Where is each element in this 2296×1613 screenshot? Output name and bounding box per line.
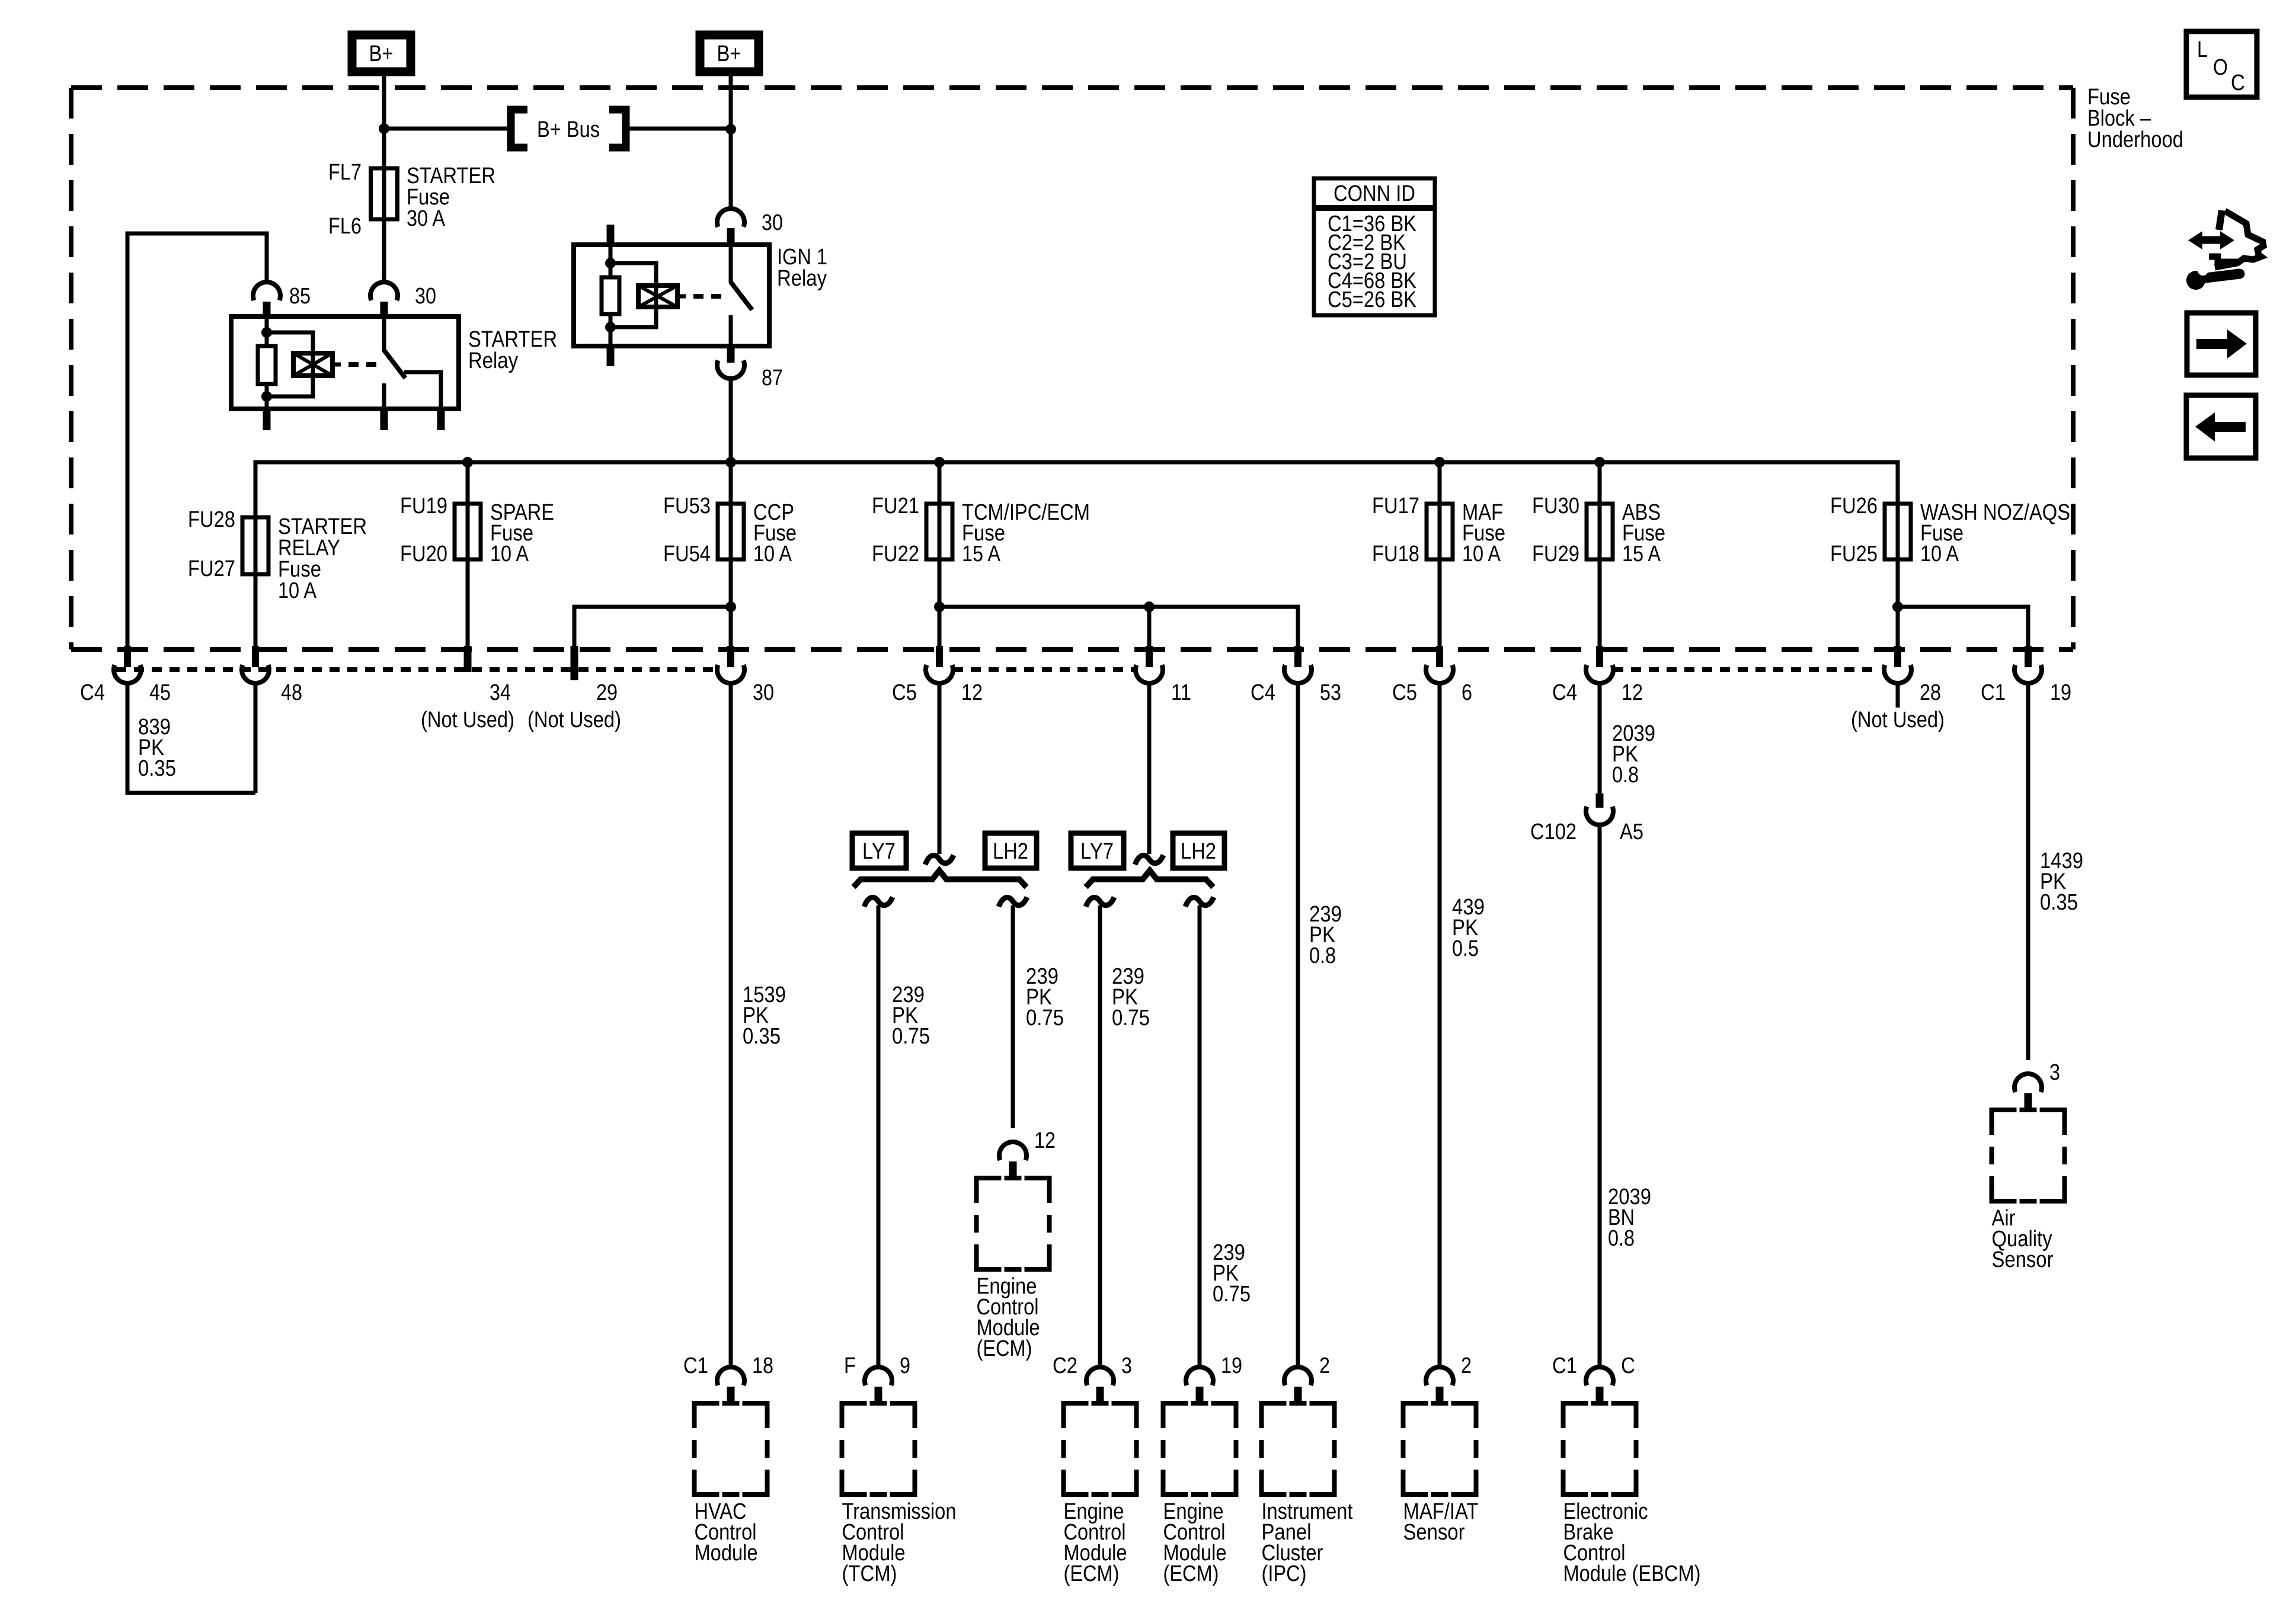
wire junction down to FL7 fuse: [382, 129, 386, 168]
break tilde wire D: [1185, 897, 1214, 907]
wire B+2 down to IGN1 pin30: [729, 129, 733, 209]
svg-text:LY7: LY7: [862, 839, 896, 864]
svg-text:LY7: LY7: [1080, 839, 1114, 864]
module Air Quality Sensor dashed box: [1992, 1110, 2017, 1135]
svg-text:C4: C4: [80, 680, 105, 705]
wire through FL fuse: [382, 168, 386, 219]
B+ terminal 2: [700, 35, 759, 72]
svg-text:Module (EBCM): Module (EBCM): [1563, 1561, 1701, 1586]
svg-text:10 A: 10 A: [1462, 542, 1501, 567]
wire through FU19 fuse: [466, 462, 470, 559]
svg-text:F: F: [844, 1353, 856, 1378]
node B+ bus right junction: [725, 124, 736, 135]
svg-text:0.8: 0.8: [1608, 1226, 1635, 1251]
module Engine Control Module mid dashed box: [977, 1178, 1002, 1203]
svg-text:48: 48: [281, 680, 302, 705]
svg-text:FU17: FU17: [1372, 494, 1419, 519]
node ign1 coil top: [605, 258, 616, 268]
wire FU18 down to pin C5-6: [1438, 559, 1442, 647]
ign1 relay pin 30 connector: [717, 209, 744, 227]
svg-text:(Not Used): (Not Used): [1851, 708, 1945, 732]
starter relay coil loop: [267, 332, 313, 396]
variant box LH2 (group1): [985, 833, 1037, 868]
svg-text:Relay: Relay: [468, 348, 518, 373]
svg-text:C1: C1: [1552, 1353, 1577, 1378]
break tilde pin12 wire: [925, 855, 954, 865]
svg-text:15 A: 15 A: [1622, 542, 1661, 567]
svg-text:0.8: 0.8: [1309, 943, 1336, 968]
starter relay switch fixed contact: [382, 316, 386, 351]
svg-text:0.75: 0.75: [1213, 1282, 1251, 1307]
wire through FU17 fuse: [1438, 462, 1442, 559]
wire B+2 down to junction: [729, 72, 733, 129]
svg-text:10 A: 10 A: [1920, 542, 1959, 567]
starter relay coil bottom wire: [265, 384, 269, 409]
fuse FU26/FU25 WASH NOZ/AQS Fuse 10A: [1885, 504, 1911, 559]
fuse FL7/FL6 STARTER Fuse 30A: [371, 168, 398, 219]
wire D down to ECM2: [1198, 905, 1202, 1367]
brace group1: [853, 870, 1027, 887]
svg-text:CONN ID: CONN ID: [1334, 181, 1415, 206]
wire ign1 87 to bus: [729, 379, 733, 462]
wire through FU28 fuse: [254, 517, 258, 574]
svg-text:0.5: 0.5: [1452, 936, 1479, 961]
wire B+ bus right segment: [628, 127, 731, 131]
connector dotted row line right: [1613, 667, 1880, 672]
svg-text:18: 18: [752, 1353, 773, 1378]
pin 30 connector (bottom row): [727, 646, 734, 667]
fuse FU30/FU29 ABS Fuse 15A: [1587, 504, 1613, 559]
connector C5 dotted row line: [953, 667, 1136, 672]
svg-text:53: 53: [1320, 680, 1341, 705]
ign1 relay coil loop: [610, 263, 656, 327]
pin C5-6 connector: [1436, 646, 1443, 667]
HVAC Control Module pin connector: [717, 1367, 744, 1385]
ign1 relay pin 87 connector: [717, 360, 744, 379]
starter relay coil resistor: [258, 346, 276, 384]
ign1 relay switch blade: [731, 282, 752, 310]
svg-text:C102: C102: [1530, 820, 1576, 844]
wire pin11 drop: [1147, 607, 1152, 647]
wire through FU53 fuse: [729, 462, 733, 559]
svg-text:L: L: [2197, 37, 2208, 62]
variant box LY7 (group2): [1071, 833, 1124, 868]
starter relay bottom stub common: [380, 409, 388, 430]
svg-text:LH2: LH2: [1181, 839, 1216, 864]
starter relay solenoid lead: [332, 363, 341, 367]
fuse block underhood dashed border (right edge): [2071, 88, 2076, 649]
ign1 relay solenoid lead: [677, 295, 686, 299]
svg-text:3: 3: [1121, 1353, 1132, 1378]
connector C102 A5 inline: [1596, 793, 1604, 808]
svg-text:FU53: FU53: [663, 494, 711, 519]
starter relay switch lower contact: [382, 383, 386, 409]
svg-text:C: C: [1621, 1353, 1635, 1378]
svg-text:FU30: FU30: [1532, 494, 1579, 519]
svg-text:FU27: FU27: [188, 556, 235, 581]
svg-text:29: 29: [596, 680, 618, 705]
svg-text:Sensor: Sensor: [1992, 1247, 2054, 1272]
svg-text:C: C: [2231, 71, 2245, 95]
wire pin48 below: [254, 683, 258, 793]
node bus at ABS fuse: [1594, 457, 1605, 468]
svg-text:30 A: 30 A: [407, 206, 446, 231]
svg-text:Module: Module: [695, 1541, 758, 1566]
wire pin53 down to IPC: [1296, 683, 1300, 1367]
svg-text:Sensor: Sensor: [1403, 1520, 1465, 1545]
svg-text:Underhood: Underhood: [2087, 127, 2183, 152]
wire through FU26 fuse: [1896, 504, 1900, 559]
svg-text:12: 12: [961, 680, 983, 705]
wire FU29 down to pin C4-12: [1598, 559, 1602, 647]
svg-text:FU21: FU21: [872, 494, 919, 519]
starter relay solenoid: [293, 353, 332, 376]
wire through FU21 fuse: [938, 462, 942, 559]
svg-text:O: O: [2213, 55, 2228, 80]
svg-text:Relay: Relay: [777, 266, 827, 291]
svg-text:45: 45: [149, 680, 171, 705]
wire FU20 down to pin 34: [466, 559, 470, 647]
svg-text:6: 6: [1462, 680, 1472, 705]
Engine Control Module 19 pin connector: [1186, 1367, 1213, 1385]
svg-text:C4: C4: [1552, 680, 1577, 705]
ign1 relay actuation dashed link: [693, 294, 724, 299]
module HVAC Control Module dashed box: [695, 1403, 720, 1428]
ign1 relay switch lower contact: [729, 315, 733, 346]
wire pin85 feed L-shape: [127, 233, 267, 647]
svg-text:FU20: FU20: [400, 542, 447, 567]
wire branch to pin C1-19: [1898, 607, 2028, 647]
svg-text:0.35: 0.35: [2040, 890, 2078, 915]
starter relay bottom stub coil: [263, 409, 271, 430]
LOC locator box: [2186, 31, 2257, 97]
variant box LH2 (group2): [1173, 833, 1224, 868]
svg-text:(Not Used): (Not Used): [527, 708, 621, 732]
wire C102 down to EBCM: [1598, 825, 1602, 1367]
starter relay bottom stub output: [437, 409, 445, 430]
svg-text:(ECM): (ECM): [977, 1336, 1032, 1361]
starter relay pin 30 connector: [370, 282, 398, 300]
wire C down to ECM1: [1098, 905, 1102, 1367]
svg-text:B+: B+: [369, 41, 394, 66]
svg-text:2: 2: [1319, 1353, 1330, 1378]
svg-text:FU26: FU26: [1830, 494, 1878, 519]
svg-text:30: 30: [762, 210, 783, 235]
svg-text:19: 19: [1221, 1353, 1242, 1378]
svg-text:C2: C2: [1053, 1353, 1077, 1378]
module MAF IAT Sensor dashed box: [1403, 1403, 1428, 1428]
wire main fuse bus: [255, 462, 1898, 517]
svg-text:12: 12: [1622, 680, 1643, 705]
ign1 relay switch fixed contact: [729, 245, 733, 283]
pin 11 connector: [1146, 646, 1153, 667]
starter relay pin 85 connector: [253, 282, 280, 300]
node TCM branch junction: [934, 601, 945, 612]
svg-text:0.75: 0.75: [1026, 1006, 1064, 1030]
wire FU54 down to pin 30: [729, 559, 733, 647]
svg-text:0.35: 0.35: [743, 1024, 781, 1049]
wire B down to ECM mid: [1011, 905, 1015, 1128]
svg-text:A5: A5: [1620, 820, 1643, 844]
break tilde wire B: [999, 897, 1027, 907]
svg-text:LH2: LH2: [993, 839, 1028, 864]
pin C1-19 connector: [2025, 646, 2032, 667]
node bus at SPARE fuse: [462, 457, 473, 468]
wire B+ bus left segment: [384, 127, 509, 131]
svg-text:(ECM): (ECM): [1064, 1561, 1120, 1586]
break tilde wire C: [1086, 897, 1114, 907]
ign1 relay pin86 top stub: [607, 225, 615, 245]
Engine Control Module mid pin connector: [999, 1142, 1027, 1160]
svg-text:(Not Used): (Not Used): [421, 708, 514, 732]
ign1 relay solenoid: [638, 286, 677, 307]
pin C4-12 connector: [1596, 646, 1603, 667]
svg-text:C5=26 BK: C5=26 BK: [1328, 287, 1416, 312]
svg-text:30: 30: [753, 680, 774, 705]
svg-text:10 A: 10 A: [278, 578, 317, 603]
svg-text:11: 11: [1171, 680, 1191, 705]
wire FU27 down to pin 48: [254, 574, 258, 647]
node WASH branch junction: [1892, 601, 1903, 612]
module Transmission Control Module dashed box: [842, 1403, 867, 1428]
ign1 relay coil resistor: [602, 277, 619, 314]
wire pin28 short stub below: [1896, 683, 1900, 708]
starter relay switch blade: [384, 350, 405, 378]
svg-text:12: 12: [1034, 1128, 1056, 1153]
wire branch to pins 11 and 53: [939, 607, 1298, 647]
Engine Control Module C2 pin connector: [1086, 1367, 1114, 1385]
svg-text:15 A: 15 A: [962, 542, 1001, 567]
wire B+1 down to junction: [382, 72, 386, 129]
fuse FU17/FU18 MAF Fuse 10A: [1427, 504, 1453, 559]
wire through FU30 fuse: [1598, 462, 1602, 559]
svg-text:FU28: FU28: [188, 507, 235, 532]
Electronic Brake Control Module pin connector: [1586, 1367, 1613, 1385]
node bus at CCP column: [725, 457, 736, 468]
svg-text:C1: C1: [683, 1353, 708, 1378]
module Instrument Panel Cluster dashed box: [1262, 1403, 1287, 1428]
node ign1 coil bottom: [605, 322, 616, 332]
wire 839 loop pin45 to pin48: [127, 683, 255, 793]
svg-text:10 A: 10 A: [490, 542, 529, 567]
fuse FU28/FU27 STARTER RELAY Fuse 10A: [242, 517, 268, 574]
fuse FU21/FU22 TCM/IPC/ECM Fuse 15A: [926, 504, 952, 559]
svg-text:FU19: FU19: [400, 494, 447, 519]
wire pin12 down to C102: [1598, 683, 1602, 793]
pin C4-53 connector: [1294, 646, 1302, 667]
svg-text:(ECM): (ECM): [1163, 1561, 1219, 1586]
wire branch to pin 29: [574, 607, 731, 647]
forward arrow box: [2187, 313, 2256, 375]
pin 29 stub (not used): [571, 646, 578, 680]
svg-text:0.75: 0.75: [892, 1024, 930, 1049]
svg-text:19: 19: [2050, 680, 2071, 705]
B+ Bus bracket right: [609, 110, 626, 148]
svg-text:28: 28: [1920, 680, 1941, 705]
ign1 relay coil top wire: [609, 245, 613, 277]
starter relay actuation dashed link: [348, 362, 379, 367]
relay STARTER Relay box: [231, 316, 459, 409]
node starter coil top: [261, 327, 272, 338]
node bus at MAF fuse: [1434, 457, 1445, 468]
ign1 relay coil bottom wire: [609, 314, 613, 346]
starter relay coil left wire: [265, 316, 269, 346]
back arrow box: [2186, 395, 2256, 458]
pin 45 connector: [124, 646, 131, 667]
CONN ID table box: [1314, 178, 1435, 315]
MAF IAT Sensor pin connector: [1426, 1367, 1453, 1385]
module Electronic Brake Control Module dashed box: [1563, 1403, 1588, 1428]
B+ Bus bracket left: [511, 110, 527, 148]
brace group2: [1086, 870, 1213, 887]
ign1 relay bottom stub coil: [607, 346, 615, 366]
wire FU22 down to pin C5-12: [938, 559, 942, 647]
svg-text:0.8: 0.8: [1612, 763, 1639, 788]
wire FL6 down to starter relay pin30: [382, 219, 386, 282]
wire A down to TCM: [877, 905, 881, 1367]
svg-text:C4: C4: [1251, 680, 1275, 705]
svg-text:34: 34: [490, 680, 511, 705]
relay IGN 1 Relay box: [574, 245, 769, 346]
node starter coil bottom: [261, 391, 272, 402]
svg-text:9: 9: [900, 1353, 910, 1378]
break tilde pin11 wire: [1135, 855, 1163, 865]
fuse FU19/FU20 SPARE Fuse 10A: [455, 504, 481, 559]
wire pin 11 down to break: [1147, 683, 1152, 854]
svg-text:0.35: 0.35: [138, 756, 176, 781]
svg-text:B+: B+: [717, 41, 741, 66]
module Engine Control Module 19 dashed box: [1163, 1403, 1188, 1428]
node B+ bus left junction: [379, 123, 389, 134]
svg-text:FU18: FU18: [1372, 542, 1419, 567]
ign1 relay pin 87 stub: [727, 346, 735, 363]
wire pin6 down to MAF sensor: [1438, 683, 1442, 1367]
pin 34 stub (not used): [464, 646, 472, 672]
break tilde wire A: [864, 897, 893, 907]
pin 48 connector: [252, 646, 259, 667]
svg-text:B+ Bus: B+ Bus: [537, 117, 600, 142]
svg-text:0.75: 0.75: [1112, 1006, 1150, 1030]
svg-text:(IPC): (IPC): [1262, 1561, 1307, 1586]
node bus at TCM fuse: [934, 457, 945, 468]
wire pin19 down to AQS: [2026, 683, 2030, 1060]
fuse block underhood dashed border (left edge): [69, 88, 73, 649]
Air Quality Sensor pin connector: [2014, 1074, 2042, 1092]
svg-text:FU29: FU29: [1532, 542, 1579, 567]
connector C4 dotted row line: [116, 667, 718, 672]
wire pin C5-12 down to break: [938, 683, 942, 854]
variant box LY7 (group1): [852, 833, 906, 868]
Instrument Panel Cluster pin connector: [1284, 1367, 1312, 1385]
fuse block underhood dashed border (top edge): [71, 85, 2073, 90]
node branch at pin 11: [1144, 601, 1155, 612]
svg-text:C1: C1: [1981, 680, 2006, 705]
svg-text:FU54: FU54: [663, 542, 711, 567]
vehicle service icon: [2219, 210, 2222, 230]
fuse FU53/FU54 CCP Fuse 10A: [718, 504, 744, 559]
Transmission Control Module pin connector: [865, 1367, 892, 1385]
svg-text:87: 87: [762, 366, 783, 391]
svg-text:3: 3: [2049, 1060, 2060, 1085]
svg-text:C5: C5: [892, 680, 917, 705]
fuse block underhood dashed border (bottom edge): [71, 647, 2073, 652]
wire FU25 down to pin 28: [1896, 559, 1900, 647]
svg-text:FL7: FL7: [328, 160, 362, 185]
starter relay output wire: [404, 372, 441, 409]
svg-text:C5: C5: [1392, 680, 1417, 705]
svg-text:85: 85: [289, 284, 311, 309]
svg-text:FU25: FU25: [1830, 542, 1878, 567]
svg-text:10 A: 10 A: [753, 542, 792, 567]
svg-text:FU22: FU22: [872, 542, 919, 567]
svg-text:(TCM): (TCM): [842, 1561, 897, 1586]
B+ terminal 1: [352, 35, 411, 72]
pin C5-12 connector: [936, 646, 943, 667]
module Engine Control Module C2 dashed box: [1064, 1403, 1089, 1428]
node CCP branch junction: [725, 601, 736, 612]
wire pin30 down to HVAC: [729, 683, 733, 1367]
svg-text:2: 2: [1461, 1353, 1472, 1378]
svg-text:30: 30: [415, 284, 436, 309]
svg-text:FL6: FL6: [328, 214, 362, 239]
pin 28 connector (not used): [1894, 646, 1901, 667]
